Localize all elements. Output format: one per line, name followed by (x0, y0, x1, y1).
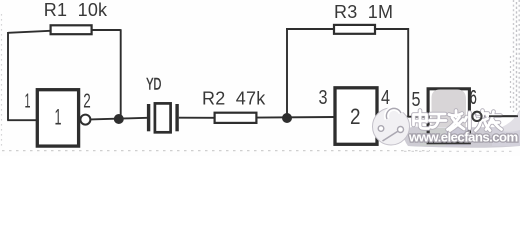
svg-text:6: 6 (470, 87, 477, 109)
label YD (crystal) (146, 74, 161, 93)
label R3 1M (334, 2, 393, 22)
scan artifact: faint dotted baseline (2, 150, 516, 153)
resistor R1 (51, 25, 92, 34)
gate 1 output bubble (80, 115, 90, 125)
pin 6 label repaint (470, 87, 477, 109)
pin 2 label (83, 91, 91, 113)
wire: R1 right to corner (93, 29, 121, 31)
wire: R2 to gate 2 input (258, 116, 335, 119)
wire: R3 feedback top-left segment (286, 28, 334, 30)
svg-text:1: 1 (25, 91, 31, 113)
inverter U1b (gate 2) (335, 88, 377, 145)
wire: R3 feedback left vertical (286, 29, 288, 118)
svg-text:R3 1M: R3 1M (334, 2, 393, 22)
watermark logo badge (373, 108, 410, 145)
node: junction dot at gate1 output (114, 114, 124, 124)
wire: gate 3 bottom edge over watermark (427, 127, 471, 144)
svg-text:R1 10k: R1 10k (44, 0, 108, 20)
wire: R3 feedback right vertical (407, 28, 409, 117)
resistor R2 (215, 113, 257, 123)
node: junction dot at gate2 input (282, 113, 292, 123)
wire: gate 2 output to gate 3 input (378, 116, 427, 118)
watermark url text (408, 130, 518, 145)
wire: output to right edge (482, 115, 518, 117)
wire: gate 1 output to crystal (90, 118, 147, 120)
label R1 10k (44, 0, 108, 20)
svg-text:2: 2 (350, 104, 361, 129)
watermark blob inside gate 3 (432, 90, 467, 128)
svg-text:4: 4 (381, 87, 390, 109)
wire: crystal to R2 (179, 117, 214, 119)
scan artifact: faint left edge dots (1, 14, 3, 148)
wire: output segment repaint (489, 115, 518, 117)
svg-text:2: 2 (83, 91, 91, 113)
svg-text:1: 1 (55, 104, 62, 129)
wire: gate 1 input (pin 1) (7, 119, 37, 121)
wire: R1 feedback left vertical (7, 32, 9, 120)
wire: R1 feedback top-left segment (8, 31, 50, 33)
svg-text:3: 3 (319, 87, 328, 109)
label R2 47k (202, 89, 266, 109)
wire: R3 right to corner (376, 28, 408, 30)
gate 3 output bubble repaint (472, 112, 481, 121)
svg-text:R2 47k: R2 47k (202, 89, 266, 109)
watermark ribbon band (404, 110, 520, 148)
gate 3 output bubble (472, 112, 481, 121)
pin 6 label (470, 87, 477, 109)
pin 1 label (25, 91, 31, 113)
pin 5 label (412, 89, 421, 111)
inverter U1a (gate 1) (37, 90, 78, 146)
scan artifact: faint dotted vertical right (511, 0, 520, 112)
svg-text:www.elecfans.com: www.elecfans.com (408, 130, 518, 145)
svg-text:YD: YD (146, 74, 161, 93)
svg-text:5: 5 (412, 89, 421, 111)
inverter U1c (gate 3) (428, 89, 469, 141)
wire: R1 feedback right vertical down to output node (120, 29, 122, 119)
resistor R3 (334, 25, 375, 34)
crystal YD (147, 103, 179, 132)
pin 4 label (381, 87, 390, 109)
pin 3 label (319, 87, 328, 109)
watermark chinese glyphs (414, 111, 502, 131)
